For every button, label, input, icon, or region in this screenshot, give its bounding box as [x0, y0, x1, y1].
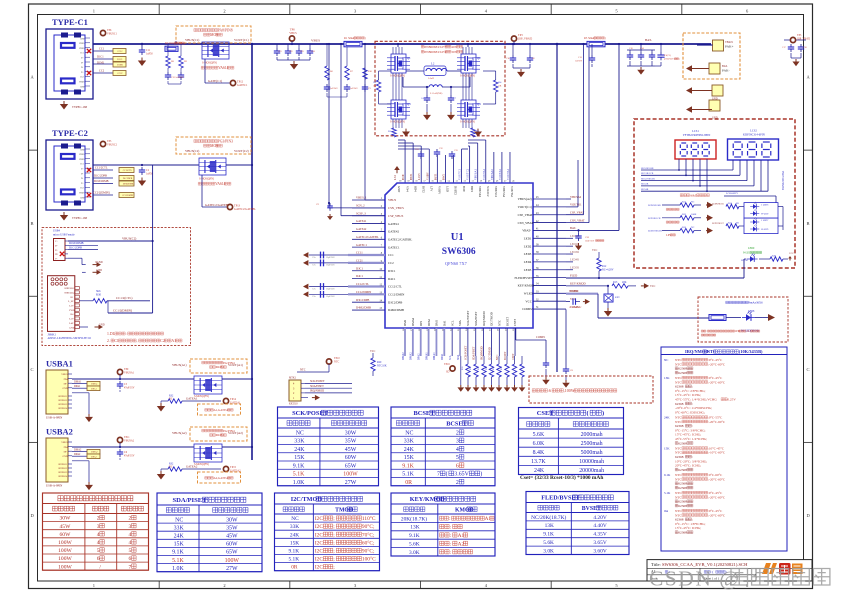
- capacitor ESD: [320, 260, 322, 267]
- svg-text:GND: GND: [80, 86, 85, 88]
- svg-text:0R: 0R: [499, 84, 502, 87]
- pin 40 LED1: [533, 237, 566, 239]
- svg-text:D1M1: D1M1: [117, 65, 123, 67]
- svg-text:GATE42: GATE42: [388, 230, 399, 234]
- svg-text:S-MOS(QFN): S-MOS(QFN): [199, 178, 214, 181]
- svg-text:9.1K: 9.1K: [402, 463, 414, 469]
- svg-text:C32: C32: [439, 148, 443, 150]
- svg-text:13K: 13K: [410, 525, 419, 531]
- pin 20 DM1: [435, 328, 437, 356]
- svg-text:60W: 60W: [226, 542, 238, 548]
- wire CC esd line: [309, 286, 348, 288]
- svg-text:4: 4: [129, 532, 132, 538]
- svg-text:APPLE-LIGHTNING-SMTPW-H7.02: APPLE-LIGHTNING-SMTPW-H7.02: [48, 337, 92, 340]
- svg-text:D3C2/DPB: D3C2/DPB: [388, 300, 402, 304]
- svg-text:R13: R13: [613, 281, 618, 284]
- connector JM6K1 APPLE-LIGHTNING: [51, 278, 54, 281]
- svg-text:VBUS(A2): VBUS(A2): [518, 197, 532, 201]
- svg-text:47uF/35V: 47uF/35V: [124, 386, 135, 389]
- wire LED10 to FLED: [744, 258, 746, 260]
- wire D lines of TYPE-C2: [93, 177, 113, 179]
- svg-text:LED4R: LED4R: [570, 258, 579, 262]
- svg-text:24K: 24K: [290, 532, 299, 538]
- ground USBA1 shield: [72, 392, 89, 394]
- svg-text:CC1/2(DMIN): CC1/2(DMIN): [113, 308, 132, 312]
- svg-text:CSET: CSET: [537, 410, 554, 417]
- svg-text:NC: NC: [691, 226, 695, 229]
- backlight LED box 1: [744, 203, 778, 219]
- svg-text:VCC: VCC: [370, 350, 376, 353]
- svg-text:(OP_VBAT): (OP_VBAT): [518, 38, 532, 41]
- capacitor C11: [141, 47, 143, 50]
- routing note box USBA2: [190, 427, 247, 441]
- svg-text:62368: 62368: [678, 441, 687, 445]
- wire VBUS main bus: [93, 43, 711, 45]
- svg-text:NC: NC: [169, 397, 173, 400]
- ground Q4: [477, 129, 479, 132]
- capacitor ESD: [320, 252, 322, 259]
- svg-text:27W: 27W: [345, 480, 357, 486]
- svg-text:5: 5: [97, 548, 100, 554]
- op-amp U1 SW6306 QFN60 main IC: [385, 183, 533, 328]
- routing note box for VOUT(C1): [176, 26, 251, 43]
- svg-text:VBUS: VBUS: [388, 198, 397, 202]
- svg-text:USBA1: USBA1: [46, 359, 73, 369]
- svg-text:LED3R: LED3R: [570, 250, 579, 254]
- capacitor ESD: [320, 283, 322, 290]
- svg-text:27W: 27W: [226, 566, 238, 572]
- test point TP5 OP_VBAT: [784, 39, 806, 41]
- transistor Q2: [461, 54, 476, 73]
- svg-text:DMA1: DMA1: [74, 380, 82, 383]
- svg-text:IRQ/NMOD: IRQ/NMOD: [482, 311, 486, 326]
- svg-text:CSET: CSET: [513, 319, 517, 326]
- svg-text:DSBT2: DSBT2: [454, 186, 458, 195]
- svg-text:VBUSC2: VBUSC2: [107, 143, 118, 146]
- svg-text:4: 4: [456, 447, 459, 453]
- svg-text:I2C: I2C: [315, 565, 323, 571]
- arrow CC to connector: [303, 284, 308, 290]
- no connect ID pin: [60, 252, 64, 256]
- svg-text:JM6K1: JM6K1: [48, 333, 57, 336]
- svg-text:R26: R26: [478, 367, 480, 370]
- svg-text:CC1/2(CTL): CC1/2(CTL): [116, 296, 132, 300]
- capacitor C15: [591, 44, 593, 55]
- svg-text:VCC: VCC: [650, 285, 656, 288]
- pin 38 LED3: [533, 253, 566, 255]
- svg-text:KMOD: KMOD: [455, 507, 474, 513]
- table CSET battery capacity: [519, 408, 624, 475]
- svg-text:45W: 45W: [345, 447, 357, 453]
- svg-text:4.20V: 4.20V: [593, 515, 606, 521]
- pin 25 SDA/PISET: [475, 328, 477, 356]
- svg-text:4: 4: [97, 540, 100, 546]
- svg-text:BAT-: BAT-: [570, 226, 576, 230]
- svg-text:VOUTC1: VOUTC1: [459, 168, 462, 180]
- svg-text:D3C1: D3C1: [388, 269, 396, 273]
- svg-text:1uF50: 1uF50: [146, 52, 153, 55]
- ground bottom resistor: [467, 385, 469, 387]
- svg-text:BW2: BW2: [442, 174, 445, 181]
- svg-text::: :: [449, 517, 450, 522]
- svg-text:49: 49: [488, 181, 490, 183]
- svg-text:LED1R/1CR: LED1R/1CR: [648, 217, 661, 220]
- wire VBUS C2 from micro: [68, 240, 153, 242]
- svg-text:LED/SEG0R: LED/SEG0R: [648, 204, 661, 207]
- wire CC21 thick: [348, 262, 385, 264]
- svg-text:D1M/2DMB: D1M/2DMB: [69, 242, 84, 245]
- wire rail to micro: [152, 165, 154, 313]
- pin 12 CC12/CTL: [352, 285, 385, 287]
- svg-text:GND: GND: [80, 149, 85, 151]
- svg-text:GATEC1: GATEC1: [356, 243, 367, 247]
- svg-text:VOUT(A2): VOUT(A2): [228, 431, 243, 435]
- svg-text:60°C;: 60°C;: [362, 539, 375, 546]
- display board box: [634, 119, 795, 268]
- svg-text:1.DL: 1.DL: [107, 332, 116, 336]
- pin 43 CSP_VBAT: [533, 214, 566, 216]
- svg-text:VCC: VCC: [525, 299, 531, 303]
- transistor Q3: [391, 100, 406, 119]
- arrow CC to connector: [303, 291, 308, 297]
- svg-text:SHIELD4: SHIELD4: [58, 408, 68, 410]
- transistor power MOS pair USBA1: [194, 376, 222, 394]
- capacitor bank C10 C14 C16: [627, 49, 655, 51]
- svg-text:65W: 65W: [345, 463, 357, 469]
- default parameter note box: [529, 376, 653, 403]
- svg-text:PGND: PGND: [96, 261, 103, 264]
- svg-text:I2C: I2C: [315, 549, 323, 555]
- svg-text:4: 4: [97, 532, 100, 538]
- svg-text:D4M2/DMB: D4M2/DMB: [388, 308, 404, 312]
- svg-text:D-: D-: [81, 173, 83, 175]
- svg-text:15K: 15K: [404, 455, 415, 461]
- svg-text:10pF/2kV: 10pF/2kV: [326, 265, 335, 267]
- svg-text:CSP_VBUS: CSP_VBUS: [388, 214, 404, 218]
- pin 27 I2C/TMOD: [490, 328, 492, 356]
- svg-text:VBUSC1: VBUSC1: [107, 32, 118, 35]
- svg-text:SEG1R/1CR: SEG1R/1CR: [641, 172, 654, 175]
- backlight LED box 2: [744, 218, 778, 234]
- svg-text:VBUSA2: VBUSA2: [502, 186, 506, 198]
- svg-text:1nF/2kV: 1nF/2kV: [350, 88, 358, 90]
- svg-text:BCSET: BCSET: [414, 410, 436, 417]
- svg-text:45W: 45W: [226, 533, 238, 539]
- resistor R3 bridge: [392, 128, 396, 137]
- svg-text:SHIELD2: SHIELD2: [58, 468, 67, 470]
- svg-text::-20°C-60°C: :-20°C-60°C: [708, 513, 726, 517]
- svg-text:VBUSA2: VBUSA2: [124, 439, 135, 442]
- net label CC1/2CTL: [87, 168, 91, 172]
- svg-text:SHIELD3: SHIELD3: [58, 472, 68, 474]
- svg-text:NTC: NTC: [498, 320, 502, 326]
- svg-text:65W: 65W: [226, 550, 238, 556]
- pin 14 D3C2/DPB: [352, 301, 385, 303]
- svg-text:2: 2: [223, 583, 225, 588]
- svg-text:NTC: NTC: [334, 361, 339, 364]
- svg-text:CSP_VBAT: CSP_VBAT: [518, 213, 533, 217]
- ground bottom resistor: [475, 385, 477, 387]
- sense divider R6 R7: [326, 44, 328, 66]
- svg-text:10uF/35V: 10uF/35V: [585, 240, 595, 242]
- 7-segment display LCS2: [728, 139, 779, 160]
- pin 31 COMP2: [533, 308, 566, 310]
- svg-text:1nF50V: 1nF50V: [575, 60, 583, 62]
- wire VBUS to pin1: [364, 44, 366, 200]
- svg-text:BOE: BOE: [462, 186, 466, 192]
- svg-text:I2C: I2C: [315, 557, 323, 563]
- test point TP6: [100, 30, 105, 35]
- pin 29 BCSET: [506, 328, 508, 356]
- svg-text:VBAT-: VBAT-: [522, 229, 531, 233]
- svg-text:PWR: PWR: [69, 309, 75, 312]
- svg-text:5.6K: 5.6K: [543, 540, 554, 546]
- svg-text:FLED: FLED: [570, 273, 577, 277]
- svg-text:LED7/SEG7: LED7/SEG7: [712, 223, 725, 225]
- svg-text:LED9: LED9: [748, 247, 755, 250]
- svg-text:DA1: DA1: [443, 320, 447, 326]
- wire WLED thick: [566, 293, 598, 295]
- svg-text:MTK1: MTK1: [289, 377, 297, 380]
- svg-text:LED2/SEG2R: LED2/SEG2R: [648, 230, 662, 233]
- terminal PAK+: [713, 40, 724, 51]
- svg-text:D1M2DMB: D1M2DMB: [123, 184, 134, 186]
- svg-text:SHIELD2: SHIELD2: [64, 287, 75, 290]
- USB4 micro USB section box: [42, 228, 191, 346]
- svg-text:L2: L2: [431, 62, 435, 66]
- svg-text:NC: NC: [296, 430, 304, 436]
- transistor power MOS pair VOUT(C1): [202, 42, 229, 59]
- svg-text:FLED/BVSET: FLED/BVSET: [541, 495, 580, 502]
- wire VOUT C1 up: [566, 206, 578, 208]
- svg-text:C22: C22: [289, 51, 293, 53]
- svg-text:VN4: VN4: [405, 186, 409, 192]
- svg-text:D1M1: D1M1: [97, 61, 105, 64]
- svg-text:USB-A-9PIN: USB-A-9PIN: [46, 484, 63, 488]
- svg-text:NC: NC: [405, 430, 413, 436]
- routing note box for VOUT(C2): [176, 137, 251, 154]
- svg-text:VOBV: VOBV: [438, 186, 442, 195]
- svg-text:GND: GND: [80, 38, 85, 40]
- wire Q1 drain: [397, 44, 399, 47]
- test point TP10 NTC: [326, 359, 331, 364]
- svg-text:U1: U1: [451, 232, 464, 243]
- svg-text:15K: 15K: [290, 540, 299, 546]
- wire VOUT USBA2 to rail: [222, 446, 252, 448]
- wire VBUS C1: [93, 43, 165, 45]
- LED wires: [566, 237, 573, 239]
- svg-text:470uF35V(: 470uF35V(: [664, 58, 675, 61]
- table BCSET battery cell count: [391, 407, 495, 486]
- wire CC12DMIN thick: [348, 293, 385, 295]
- ground TP16: [460, 356, 462, 385]
- wire CSP VBAT: [566, 214, 584, 216]
- ground bottom resistor: [506, 385, 508, 387]
- svg-text:L1 1uH(NR): L1 1uH(NR): [430, 92, 442, 95]
- svg-text:SDA/PISET: SDA/PISET: [473, 346, 476, 360]
- svg-text:D1M/2DMB: D1M/2DMB: [94, 180, 109, 183]
- svg-text:15K: 15K: [174, 542, 185, 548]
- svg-text:PA8/PIN8: PA8/PIN8: [218, 28, 233, 32]
- gate network GATEA2: [160, 471, 162, 474]
- pin 3 CSP_VBUS: [352, 215, 385, 217]
- svg-text:V-: V-: [55, 257, 58, 260]
- svg-text:CC12/CTL: CC12/CTL: [388, 285, 402, 289]
- capacitor VCC: [572, 298, 574, 304]
- svg-text:NC: NC: [169, 465, 173, 468]
- svg-text:BAT-: BAT-: [645, 38, 652, 42]
- svg-text:VBUS: VBUS: [79, 193, 84, 195]
- svg-text:I2C/TMOD: I2C/TMOD: [488, 347, 491, 360]
- svg-text:9.1K: 9.1K: [293, 463, 305, 469]
- svg-text:DMA2: DMA2: [411, 317, 415, 326]
- svg-text:TYPEC-16P: TYPEC-16P: [72, 216, 88, 220]
- svg-text:Q3: Q3: [407, 102, 411, 106]
- svg-text:90°C;: 90°C;: [362, 523, 375, 530]
- pin 16 DM2: [404, 328, 406, 356]
- svg-text:BST1: BST1: [410, 173, 413, 180]
- svg-text:9.1K: 9.1K: [543, 532, 554, 538]
- svg-text:1: 1: [93, 583, 95, 588]
- ground Q3: [405, 129, 407, 132]
- wire CC esd line: [309, 262, 348, 264]
- svg-text:NC: NC: [291, 516, 299, 522]
- svg-text:USB-A-9PIN: USB-A-9PIN: [46, 416, 63, 420]
- svg-text:33K: 33K: [404, 439, 415, 445]
- test point TP5: [100, 141, 105, 146]
- key switch: [607, 286, 609, 294]
- svg-text:D4C1: D4C1: [356, 274, 363, 278]
- buck-boost power stage box: [375, 41, 505, 136]
- capacitor CB2: [450, 87, 452, 95]
- wires 7-segment matrix: [678, 159, 680, 170]
- pin 41 VBAT-: [533, 229, 566, 231]
- pin 33 WLED: [533, 292, 566, 294]
- pin 35 FLED/BVSET: [533, 277, 566, 279]
- capacitor C16: [512, 44, 514, 55]
- pin 8 CC1: [352, 254, 385, 256]
- wire micro GND: [68, 257, 82, 259]
- svg-text:A1: A1: [485, 517, 492, 522]
- svg-text:SD: SD: [446, 371, 449, 374]
- resistor R13 20K: [612, 284, 628, 288]
- svg-text:SDA/PISET: SDA/PISET: [173, 497, 208, 504]
- svg-text:SCK/POSET: SCK/POSET: [465, 345, 468, 360]
- svg-text:R25: R25: [470, 367, 472, 370]
- table KEY KMOD function: [391, 493, 495, 556]
- svg-text:TP10: TP10: [334, 357, 340, 360]
- note box USBA2 gate: [198, 472, 241, 483]
- svg-text:QFN60 7X7: QFN60 7X7: [445, 261, 468, 266]
- pin 30 CSET: [514, 328, 516, 356]
- svg-text:CC12/DMIN: CC12/DMIN: [388, 293, 405, 297]
- svg-text:NTC: NTC: [300, 369, 306, 372]
- wire USB data line: [435, 328, 437, 356]
- svg-text:VBUS_1: VBUS_1: [356, 196, 367, 200]
- table battery count power reference: [43, 493, 149, 570]
- svg-text:(10K/3435B): (10K/3435B): [739, 349, 763, 354]
- svg-text:VBUSA2: VBUSA2: [491, 169, 494, 180]
- wire CC1-CTL of TYPE-C2: [93, 169, 113, 171]
- svg-text:VOUT(C1): VOUT(C1): [234, 38, 249, 42]
- pin 18 DP2: [420, 328, 422, 356]
- svg-text:TYPE-C2: TYPE-C2: [52, 128, 88, 138]
- svg-text:7: 7: [129, 564, 132, 570]
- pin 32 VCC: [533, 300, 566, 302]
- svg-text:ID: ID: [55, 253, 58, 256]
- svg-text:3.65V: 3.65V: [593, 540, 606, 546]
- svg-text:S-MOS(QFN): S-MOS(QFN): [460, 74, 475, 77]
- wire CC12DMIN: [107, 301, 109, 313]
- svg-text:GATEC2/GATEBL: GATEC2/GATEBL: [234, 208, 256, 211]
- wire CC12CTL: [107, 300, 150, 302]
- wire bundle Q2 Q4: [462, 47, 464, 54]
- ground TYPE-C2: [63, 212, 65, 215]
- pin 39 LED2: [533, 245, 566, 247]
- svg-text:D3C1: D3C1: [356, 266, 363, 270]
- svg-text:5.1K: 5.1K: [172, 558, 184, 564]
- svg-text:100°C: 100°C: [362, 556, 376, 563]
- svg-text:VOUTA1: VOUTA1: [483, 168, 486, 180]
- svg-text:LED2R: LED2R: [570, 242, 579, 246]
- svg-text:C7 2.2uF16V: C7 2.2uF16V: [569, 307, 582, 309]
- svg-text:BST1: BST1: [434, 173, 437, 180]
- svg-text:6: 6: [129, 556, 132, 562]
- svg-text:10pF/2kV: 10pF/2kV: [326, 257, 335, 259]
- svg-text:100W: 100W: [58, 540, 72, 546]
- svg-text:SDA: SDA: [458, 319, 462, 326]
- pin 23 SDA: [459, 328, 461, 356]
- svg-text:3: 3: [97, 524, 100, 530]
- svg-text:CC1C: CC1C: [117, 51, 123, 53]
- svg-text:BVSET: BVSET: [582, 506, 601, 512]
- svg-text:51: 51: [472, 181, 474, 183]
- svg-text:CSN_VBUS: CSN_VBUS: [388, 206, 404, 210]
- svg-text:TMOD: TMOD: [335, 507, 353, 513]
- wire USB data line: [428, 328, 430, 356]
- capacitor C9: [328, 202, 330, 204]
- pin 44 VOUT(C1): [533, 206, 566, 208]
- svg-text:R5 5mΩ(: R5 5mΩ(: [584, 37, 595, 40]
- svg-text:VBUS: VBUS: [79, 154, 84, 156]
- svg-text:VOBV: VOBV: [426, 172, 429, 180]
- svg-text:DM2: DM2: [403, 319, 407, 326]
- svg-text:IRQ/NMOD: IRQ/NMOD: [310, 390, 324, 393]
- svg-text:B: B: [31, 221, 34, 226]
- test point TP3 OP_VBAT: [511, 36, 516, 41]
- wire CC11 thick: [348, 254, 385, 256]
- svg-text:R1 5mΩ(: R1 5mΩ(: [344, 37, 355, 40]
- svg-text:GATEC2/GATEBL: GATEC2/GATEBL: [388, 238, 412, 242]
- pin 42 CSN_VBAT: [533, 222, 566, 224]
- svg-text:GATEC1: GATEC1: [237, 84, 248, 87]
- svg-text:24K: 24K: [664, 416, 670, 420]
- wire CC2 of TYPE-C1: [93, 72, 113, 74]
- resistor network bottom R24-R29: [467, 356, 469, 364]
- svg-text::-20°C-60°C: :-20°C-60°C: [708, 380, 726, 384]
- divider network R8 R9: [166, 56, 170, 68]
- svg-text:KEY/KMOD: KEY/KMOD: [518, 284, 535, 288]
- svg-text:35W: 35W: [345, 439, 357, 445]
- svg-text:2: 2: [97, 516, 100, 522]
- pin 7 GATEC1: [352, 246, 385, 248]
- svg-text:D1C/2DPB: D1C/2DPB: [94, 175, 107, 178]
- ground TYPE-C1: [63, 101, 65, 104]
- wire KEY/KMOD: [566, 285, 608, 287]
- pin 28 NTC: [498, 328, 500, 356]
- fuse FB1: [709, 315, 726, 321]
- svg-text:1.0K: 1.0K: [172, 566, 184, 572]
